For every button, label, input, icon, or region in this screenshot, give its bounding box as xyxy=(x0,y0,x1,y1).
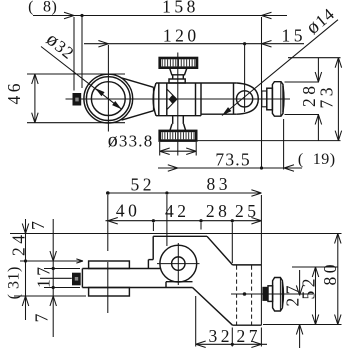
svg-text:15: 15 xyxy=(282,26,307,46)
svg-text:( 31): ( 31) xyxy=(6,266,23,299)
svg-text:( 19): ( 19) xyxy=(298,151,336,168)
svg-text:158: 158 xyxy=(162,0,199,17)
svg-text:42: 42 xyxy=(165,201,190,221)
svg-text:7: 7 xyxy=(32,313,52,322)
svg-text:32: 32 xyxy=(209,326,234,346)
svg-text:27: 27 xyxy=(283,282,303,307)
svg-text:17: 17 xyxy=(34,264,54,289)
svg-text:ø33.8: ø33.8 xyxy=(108,130,154,152)
svg-text:7: 7 xyxy=(28,221,48,230)
svg-text:120: 120 xyxy=(163,25,200,45)
svg-text:25: 25 xyxy=(235,201,260,221)
svg-text:40: 40 xyxy=(116,201,141,221)
svg-text:28: 28 xyxy=(206,201,231,221)
svg-text:80: 80 xyxy=(320,261,340,286)
svg-text:27: 27 xyxy=(237,326,262,346)
svg-text:73.5: 73.5 xyxy=(215,150,250,170)
svg-text:83: 83 xyxy=(207,174,232,194)
svg-text:24: 24 xyxy=(9,232,29,257)
svg-text:73: 73 xyxy=(317,84,337,109)
svg-text:46: 46 xyxy=(4,80,24,105)
svg-text:( 8): ( 8) xyxy=(28,0,57,16)
svg-text:52: 52 xyxy=(131,175,156,195)
